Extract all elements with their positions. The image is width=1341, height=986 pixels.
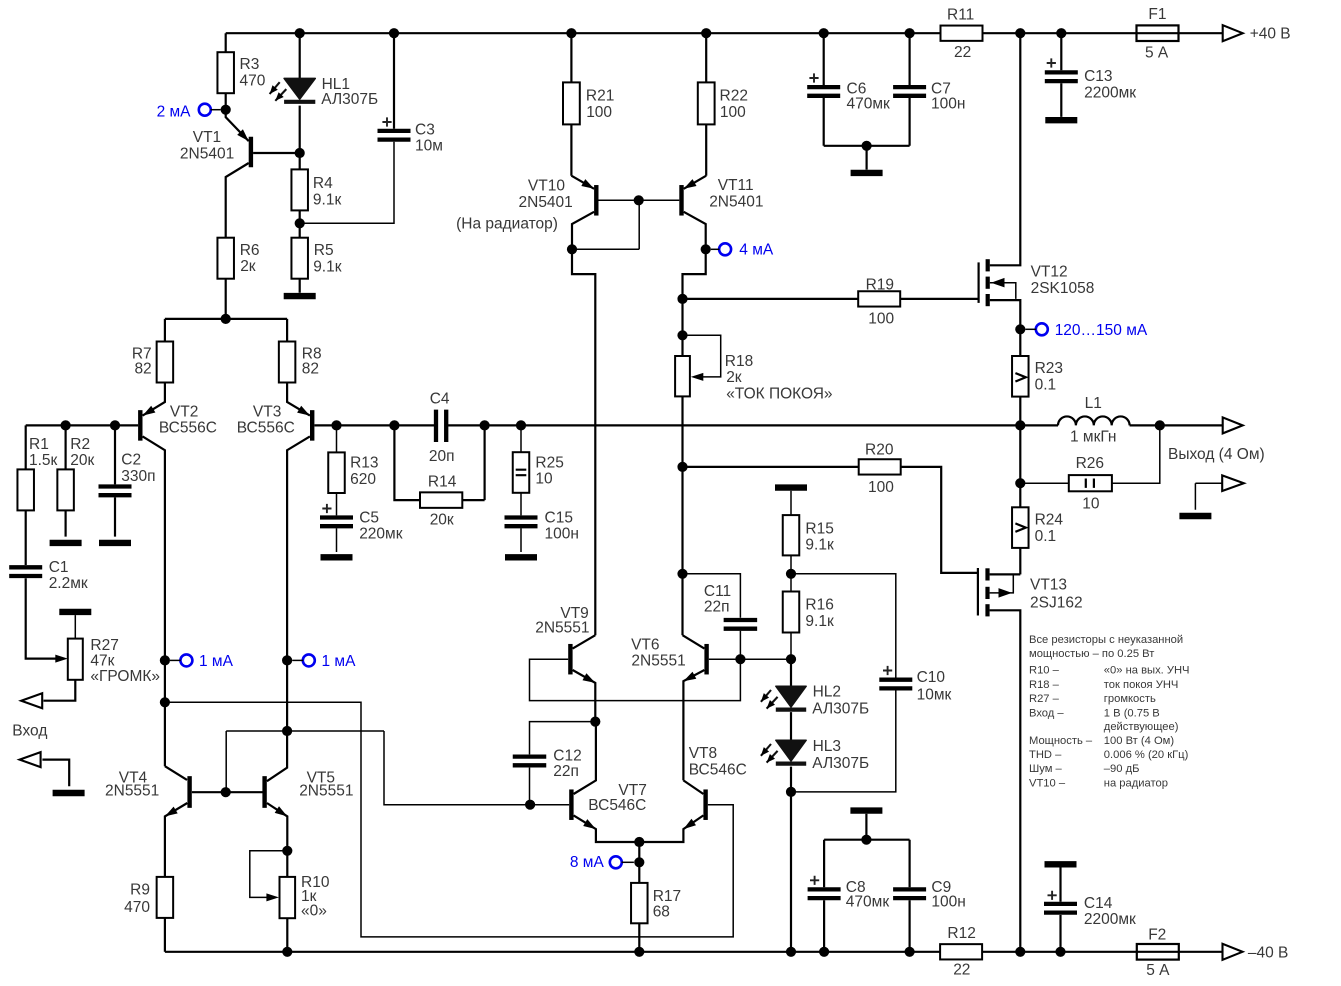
node R26 left	[1015, 478, 1025, 488]
svg-text:20к: 20к	[430, 512, 454, 529]
svg-text:20п: 20п	[429, 448, 455, 465]
svg-text:100н: 100н	[931, 894, 965, 911]
node VT1 base / R4	[295, 148, 305, 158]
resistor R4	[299, 153, 301, 223]
ground above R15	[775, 484, 807, 490]
svg-text:F2: F2	[1148, 927, 1166, 944]
svg-text:100: 100	[868, 479, 894, 496]
terminal input upper	[21, 693, 42, 708]
terminal output	[1223, 417, 1243, 433]
node VT7/VT8 emitters	[634, 837, 644, 847]
svg-text:2200мк: 2200мк	[1084, 85, 1136, 102]
svg-text:R16: R16	[805, 597, 833, 614]
svg-text:R9: R9	[130, 881, 150, 898]
svg-text:470: 470	[240, 72, 266, 89]
svg-text:VT10: VT10	[528, 178, 565, 195]
svg-text:R19: R19	[866, 277, 894, 294]
node R4/R5/C3	[295, 218, 305, 228]
svg-text:470мк: 470мк	[846, 894, 890, 911]
ground below C5	[321, 554, 353, 560]
capacitor C13 2200uF electrolytic	[1056, 28, 1066, 38]
node VT6 base / HL2	[786, 654, 796, 664]
node VT10 collector tie	[567, 244, 577, 254]
svg-text:Вход: Вход	[12, 723, 47, 740]
transistor VT1 2N5401	[249, 137, 253, 168]
transistor VT4 2N5551	[187, 776, 191, 808]
resistor R2	[61, 420, 71, 430]
transistor VT3 BC556C	[310, 410, 314, 441]
resistor R15 9.1k	[783, 515, 800, 555]
resistor R20 100	[683, 467, 978, 573]
svg-text:2к: 2к	[240, 258, 256, 275]
svg-text:2N5551: 2N5551	[299, 783, 353, 800]
capacitor C5 220uF electrolytic	[320, 518, 353, 527]
svg-text:10: 10	[1082, 496, 1100, 513]
svg-text:R25: R25	[535, 455, 563, 472]
ground below C2	[99, 540, 131, 546]
wire to R7 and R8	[165, 319, 287, 342]
svg-text:R15: R15	[805, 521, 833, 538]
MOSFET VT13 2SJ162	[977, 568, 979, 616]
svg-text:ток покоя УНЧ: ток покоя УНЧ	[1104, 679, 1179, 691]
svg-text:Все резисторы с неуказанной: Все резисторы с неуказанной	[1029, 634, 1183, 646]
svg-text:Выход (4 Ом): Выход (4 Ом)	[1168, 446, 1265, 463]
svg-text:5 А: 5 А	[1146, 962, 1170, 979]
svg-text:ВС546С: ВС546С	[689, 762, 747, 779]
svg-text:100н: 100н	[545, 526, 579, 543]
node VT13 drain rail	[1015, 947, 1025, 957]
svg-text:действующее): действующее)	[1104, 721, 1179, 733]
resistor R3	[225, 33, 227, 110]
svg-text:Мощность –: Мощность –	[1029, 735, 1093, 747]
fuse F2	[1137, 944, 1179, 960]
resistor R22	[701, 28, 711, 38]
svg-text:R27 –: R27 –	[1029, 693, 1060, 705]
resistor R17 68	[638, 862, 640, 952]
svg-text:C2: C2	[121, 452, 141, 469]
ground below R5	[284, 293, 316, 299]
node 2mA measuring point	[221, 105, 231, 115]
resistor R5	[299, 223, 301, 292]
svg-text:THD –: THD –	[1029, 749, 1062, 761]
svg-text:68: 68	[653, 904, 670, 921]
svg-text:«0»: «0»	[301, 902, 327, 919]
node R6 to R7/R8	[221, 314, 231, 324]
svg-text:ВС556С: ВС556С	[237, 419, 295, 436]
svg-text:R27: R27	[90, 637, 118, 654]
svg-text:C13: C13	[1084, 68, 1112, 85]
node R15/R16/C10	[786, 569, 796, 579]
ground C6/C7	[824, 146, 910, 170]
resistor R9	[157, 877, 174, 918]
svg-text:8 мА: 8 мА	[570, 854, 605, 871]
node R10 wiper	[282, 846, 292, 856]
node VT12 drain rail	[1015, 28, 1025, 38]
node 1mA left	[160, 655, 170, 665]
svg-text:R26: R26	[1076, 455, 1104, 472]
svg-text:100: 100	[720, 104, 746, 121]
terminal output ground	[1195, 483, 1222, 510]
svg-text:VT3: VT3	[253, 404, 281, 421]
svg-text:100н: 100н	[931, 96, 965, 113]
svg-text:2N5551: 2N5551	[105, 783, 159, 800]
svg-text:ВС546С: ВС546С	[588, 797, 646, 814]
svg-text:R5: R5	[314, 242, 334, 259]
node VT3 collector / VT5 collector / bases	[282, 726, 292, 736]
svg-text:620: 620	[350, 471, 376, 488]
wire VT3 coll to VT7 base	[384, 731, 569, 805]
svg-text:C5: C5	[359, 510, 379, 527]
svg-text:R10 –: R10 –	[1029, 664, 1060, 676]
capacitor C1 2.2uF	[9, 567, 42, 576]
svg-text:5 А: 5 А	[1145, 45, 1169, 62]
svg-text:«0» на вых. УНЧ: «0» на вых. УНЧ	[1104, 664, 1190, 676]
wire -40V bottom rail	[165, 951, 1223, 953]
svg-text:C14: C14	[1084, 895, 1113, 912]
LED HL1	[299, 33, 301, 78]
resistor R26 10 (2W)	[1020, 425, 1160, 483]
transistor VT9 2N5551	[568, 644, 572, 675]
capacitor C4 20p	[436, 410, 446, 442]
svg-text:–90 дБ: –90 дБ	[1104, 763, 1140, 775]
svg-text:VT10 –: VT10 –	[1029, 777, 1066, 789]
transistor VT5 2N5551	[262, 776, 266, 808]
svg-text:R2: R2	[70, 436, 90, 453]
transistor VT6 2N5551	[704, 644, 708, 675]
resistor R23 0.1 (5W)	[1019, 329, 1021, 425]
resistor R6	[217, 238, 234, 279]
node R17 rail	[634, 947, 644, 957]
wire mid line C4 right section	[446, 424, 1020, 426]
svg-text:R1: R1	[29, 436, 49, 453]
svg-text:VT2: VT2	[170, 404, 198, 421]
svg-text:100: 100	[868, 311, 894, 328]
wire +40V top rail	[226, 32, 1223, 34]
capacitor C10 10uF electrolytic	[791, 574, 896, 678]
svg-text:«ТОК ПОКОЯ»: «ТОК ПОКОЯ»	[726, 386, 832, 403]
svg-text:R6: R6	[240, 242, 260, 259]
svg-text:R23: R23	[1035, 360, 1063, 377]
svg-text:2N5551: 2N5551	[631, 652, 685, 669]
node C12 to VT7 base	[525, 800, 535, 810]
resistor R21	[566, 28, 576, 38]
svg-text:330п: 330п	[121, 468, 155, 485]
svg-text:громкость: громкость	[1104, 693, 1156, 705]
svg-text:L1: L1	[1085, 395, 1102, 412]
svg-text:R11: R11	[947, 7, 974, 24]
svg-text:R18: R18	[725, 353, 753, 370]
node C4 left	[389, 420, 399, 430]
node HL3 cathode / C10	[790, 767, 792, 792]
svg-text:20к: 20к	[70, 452, 94, 469]
capacitor C3 10m electrolytic	[393, 33, 395, 129]
svg-text:2.2мк: 2.2мк	[49, 575, 88, 592]
svg-text:10: 10	[535, 471, 553, 488]
svg-text:2SJ162: 2SJ162	[1030, 595, 1083, 612]
svg-text:1 В (0.75 В: 1 В (0.75 В	[1104, 707, 1160, 719]
capacitor C6 470uF electrolytic	[819, 28, 829, 38]
svg-text:2N5401: 2N5401	[709, 194, 763, 211]
svg-text:0.1: 0.1	[1035, 377, 1057, 394]
transistor VT10 2N5401 (on heatsink)	[594, 185, 598, 216]
inductor L1 1uH	[1058, 416, 1130, 425]
capacitor C11 22p	[683, 574, 741, 618]
svg-text:VT11: VT11	[718, 177, 754, 194]
svg-text:2SK1058: 2SK1058	[1031, 280, 1095, 297]
potentiometer R18 2k bias	[675, 356, 690, 396]
svg-text:1.5к: 1.5к	[29, 452, 58, 469]
svg-text:R21: R21	[586, 87, 614, 104]
svg-text:2200мк: 2200мк	[1084, 911, 1136, 928]
svg-text:82: 82	[134, 360, 151, 377]
svg-text:22п: 22п	[704, 599, 730, 616]
svg-text:АЛ307Б: АЛ307Б	[812, 700, 869, 717]
node C9 rail	[905, 947, 915, 957]
svg-text:F1: F1	[1148, 6, 1166, 23]
svg-text:VT12: VT12	[1031, 264, 1068, 281]
svg-text:R24: R24	[1035, 512, 1064, 529]
svg-text:82: 82	[302, 360, 319, 377]
svg-text:470: 470	[124, 899, 150, 916]
svg-text:R18 –: R18 –	[1029, 679, 1060, 691]
resistor R7	[157, 342, 174, 383]
svg-text:9.1к: 9.1к	[805, 613, 834, 630]
svg-text:C12: C12	[553, 748, 581, 765]
ground C8/C9	[850, 807, 882, 813]
svg-text:C11: C11	[704, 583, 731, 600]
ground input	[53, 790, 85, 796]
resistor R1	[25, 425, 27, 565]
svg-text:HL2: HL2	[813, 684, 841, 701]
resistor R16 9.1k	[790, 574, 792, 592]
node 1mA right	[282, 655, 292, 665]
terminal -40 V	[1223, 944, 1243, 960]
svg-text:VT13: VT13	[1030, 577, 1067, 594]
svg-text:VT8: VT8	[689, 745, 717, 762]
resistor R12	[940, 944, 982, 959]
svg-text:ВС556С: ВС556С	[159, 419, 217, 436]
svg-text:22: 22	[954, 44, 971, 61]
node R10 rail	[282, 947, 292, 957]
resistor R8	[279, 342, 296, 383]
svg-text:1 мА: 1 мА	[199, 653, 234, 670]
capacitor C14 2200uF electrolytic	[1045, 861, 1077, 867]
svg-text:C15: C15	[545, 510, 573, 527]
svg-text:22: 22	[953, 962, 970, 979]
svg-text:100: 100	[586, 104, 612, 121]
capacitor C2 330p	[110, 420, 120, 430]
svg-text:22п: 22п	[553, 763, 579, 780]
capacitor C12 22p	[530, 722, 596, 755]
node C11 branch	[677, 569, 687, 579]
transistor VT11 2N5401	[679, 185, 683, 216]
node R25	[516, 420, 526, 430]
node L1 right	[1155, 420, 1165, 430]
svg-text:47к: 47к	[90, 653, 114, 670]
potentiometer R10 1k	[286, 851, 288, 952]
node 8mA	[638, 842, 640, 862]
svg-text:C3: C3	[415, 121, 435, 138]
node 4mA	[701, 244, 711, 254]
svg-text:R13: R13	[350, 455, 378, 472]
capacitor C7 100n	[905, 28, 915, 38]
ground below C15	[505, 554, 537, 560]
svg-text:R12: R12	[947, 925, 975, 942]
svg-text:2N5551: 2N5551	[535, 620, 589, 637]
wire mirror bases tie	[226, 731, 384, 792]
transistor VT8 BC546C	[703, 789, 707, 820]
svg-text:Вход –: Вход –	[1029, 707, 1064, 719]
svg-text:2 мА: 2 мА	[157, 103, 192, 120]
svg-text:HL3: HL3	[813, 738, 841, 755]
svg-text:АЛ307Б: АЛ307Б	[812, 755, 869, 772]
svg-text:+40 В: +40 В	[1250, 26, 1291, 43]
svg-text:(На радиатор): (На радиатор)	[456, 216, 558, 233]
svg-text:9.1к: 9.1к	[805, 537, 834, 554]
node R18 top	[677, 330, 687, 340]
svg-text:1 мА: 1 мА	[322, 653, 357, 670]
svg-text:0.006 % (20 кГц): 0.006 % (20 кГц)	[1104, 749, 1189, 761]
LED HL3	[790, 712, 792, 740]
node HL rail	[786, 947, 796, 957]
svg-text:R22: R22	[720, 87, 748, 104]
node R20	[677, 462, 687, 472]
svg-text:АЛ307Б: АЛ307Б	[321, 91, 378, 108]
svg-text:2к: 2к	[726, 369, 742, 386]
resistor R14 20k bypass	[394, 425, 484, 500]
svg-text:10мк: 10мк	[917, 687, 952, 704]
svg-text:9.1к: 9.1к	[313, 192, 342, 209]
node R19	[677, 294, 687, 304]
ground below R2	[50, 540, 82, 546]
wire VT4 collector to VT8 base (long link)	[165, 702, 733, 937]
svg-text:VT6: VT6	[631, 637, 659, 654]
svg-text:R14: R14	[428, 474, 457, 491]
resistor R11	[941, 26, 983, 41]
svg-text:2N5401: 2N5401	[180, 145, 234, 162]
resistor R24 0.1 (5W)	[1012, 507, 1029, 548]
svg-text:R20: R20	[865, 442, 894, 459]
node VT9 emitter / VT7 collector / C12	[590, 717, 600, 727]
svg-text:220мк: 220мк	[359, 526, 403, 543]
node VT4 collector to VT8 base link	[160, 697, 170, 707]
capacitor C15 100n	[505, 518, 538, 527]
capacitor C9 100n	[908, 840, 910, 952]
node R13	[331, 420, 341, 430]
wiper arrow into R27	[55, 655, 68, 663]
node output	[1015, 420, 1025, 430]
svg-text:R3: R3	[240, 56, 260, 73]
svg-text:1 мкГн: 1 мкГн	[1070, 429, 1116, 446]
node 120-150 mA	[1015, 324, 1025, 334]
svg-text:VT1: VT1	[193, 129, 221, 146]
capacitor C8 470uF electrolytic	[823, 840, 825, 952]
svg-text:R17: R17	[653, 888, 681, 905]
svg-text:120…150 мА: 120…150 мА	[1055, 322, 1148, 339]
resistor R13	[336, 425, 338, 515]
terminal +40 V	[1223, 25, 1243, 41]
resistor R25 10 (2W)	[520, 425, 522, 515]
svg-text:2N5401: 2N5401	[519, 194, 573, 211]
fuse F1	[1137, 25, 1179, 41]
svg-text:0.1: 0.1	[1035, 528, 1057, 545]
svg-text:9.1к: 9.1к	[313, 258, 342, 275]
MOSFET VT12 2SK1058	[990, 33, 1021, 265]
svg-text:Шум –: Шум –	[1029, 763, 1063, 775]
svg-text:100 Вт (4 Ом): 100 Вт (4 Ом)	[1104, 735, 1175, 747]
potentiometer R27 47k volume	[59, 609, 91, 615]
svg-text:10м: 10м	[415, 137, 443, 154]
terminal input lower	[20, 752, 41, 767]
svg-text:C10: C10	[917, 669, 946, 686]
node C4 right	[480, 420, 490, 430]
svg-text:470мк: 470мк	[847, 96, 891, 113]
svg-text:4 мА: 4 мА	[739, 242, 774, 259]
node C8 rail	[819, 947, 829, 957]
svg-text:C4: C4	[430, 391, 450, 408]
svg-text:мощностью – по 0.25 Вт: мощностью – по 0.25 Вт	[1029, 648, 1154, 660]
svg-text:на радиатор: на радиатор	[1104, 777, 1168, 789]
resistor R19 100	[683, 298, 979, 300]
transistor VT7 BC546C	[569, 789, 573, 820]
svg-text:C1: C1	[49, 559, 69, 576]
svg-text:«ГРОМК»: «ГРОМК»	[90, 668, 160, 685]
svg-text:–40 В: –40 В	[1248, 945, 1289, 962]
transistor VT2 BC556C	[138, 410, 142, 441]
svg-text:R4: R4	[313, 175, 333, 192]
LED HL2	[790, 659, 792, 686]
